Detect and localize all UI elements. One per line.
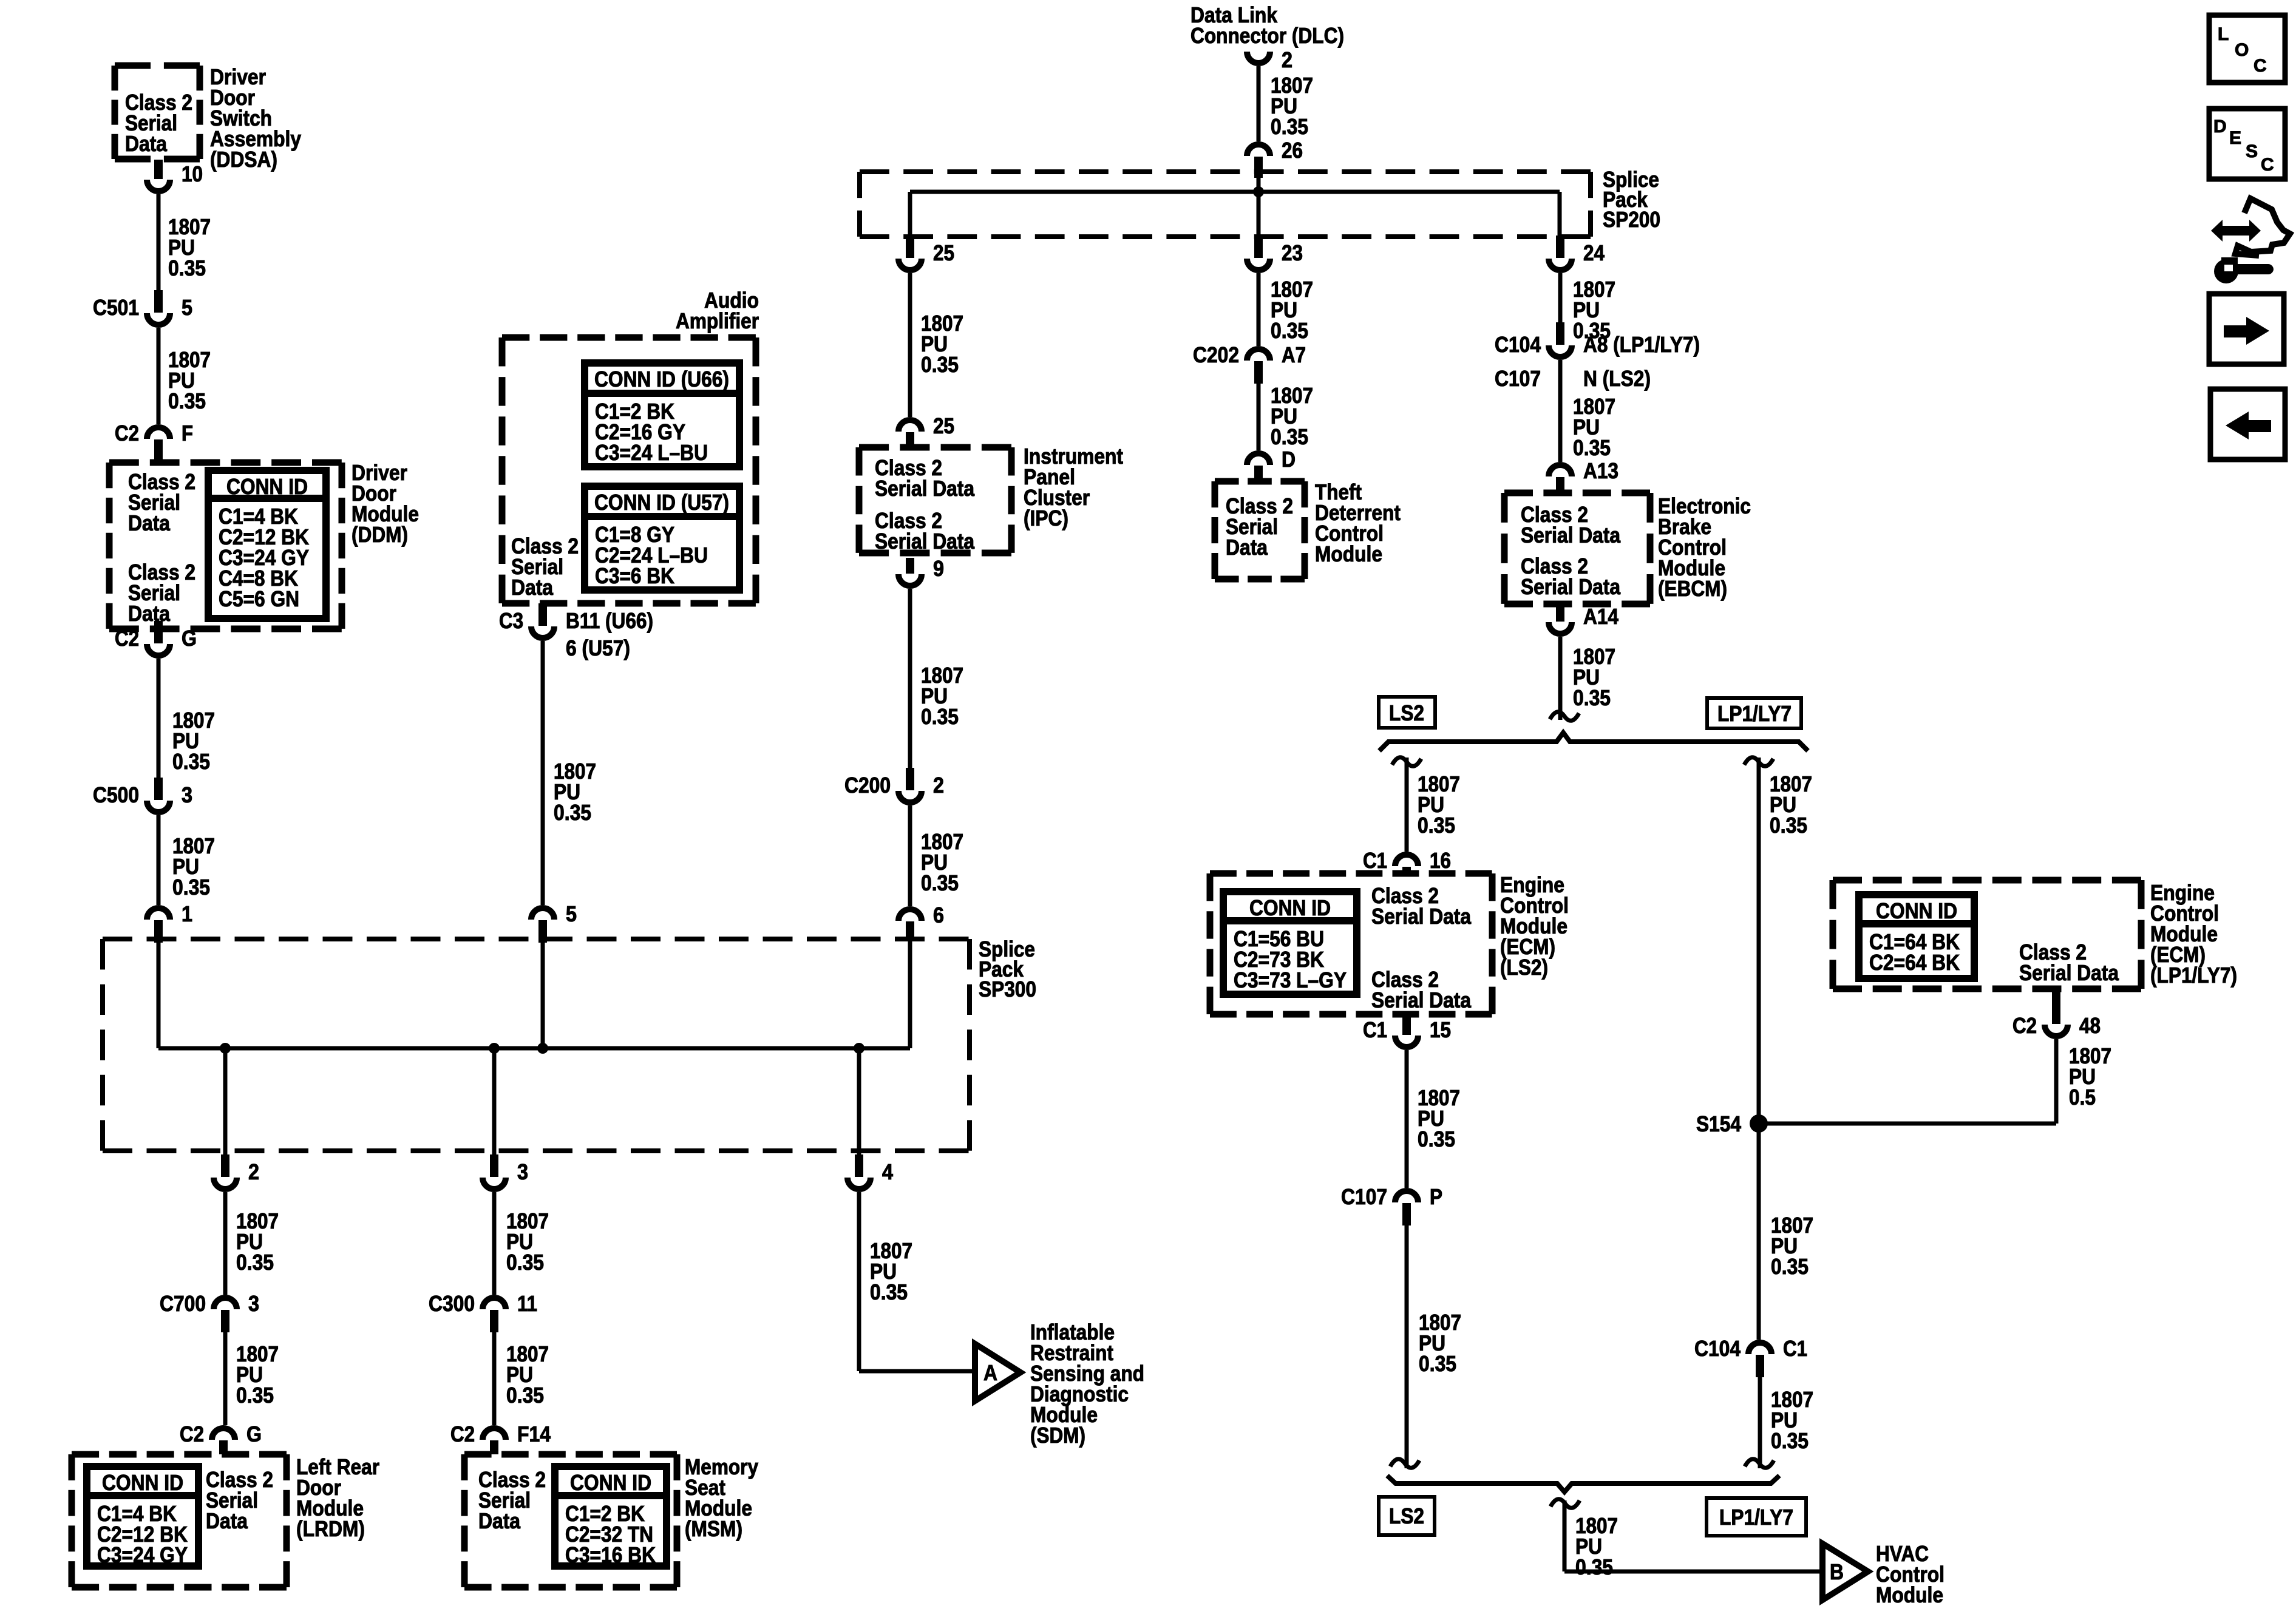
- wire 1807 PU from SP300 3 to C300: [492, 1192, 497, 1295]
- wire 1807 PU from IPC 9 to C200: [908, 589, 912, 768]
- svg-text:C2: C2: [2012, 1013, 2037, 1038]
- wire-break squiggle at LS2 wire end (bottom): [1390, 1459, 1419, 1468]
- svg-text:LP1/LY7: LP1/LY7: [1719, 1505, 1793, 1530]
- wire label 1807 PU 0.35 (C200-SP300): [921, 829, 963, 895]
- CONN ID (U66) table (Audio Amplifier): [585, 363, 739, 467]
- connector Theft pin D: [1247, 447, 1296, 481]
- svg-text:Data: Data: [206, 1508, 248, 1533]
- svg-text:C202: C202: [1193, 342, 1239, 367]
- svg-text:Data: Data: [128, 510, 171, 535]
- svg-text:Data: Data: [478, 1508, 521, 1533]
- connector C202 pin A7: [1193, 342, 1306, 384]
- svg-text:Serial Data: Serial Data: [1521, 574, 1621, 599]
- svg-text:0.35: 0.35: [921, 704, 959, 729]
- wire 1807 PU from C2 G to C500: [157, 659, 161, 778]
- svg-text:LP1/LY7: LP1/LY7: [1717, 701, 1792, 726]
- wire SP300 vertical pin1 leg: [157, 943, 161, 1048]
- svg-text:Module: Module: [1315, 541, 1382, 566]
- CONN ID table (ECM LS2): [1223, 892, 1357, 994]
- label EBCM name: [1658, 493, 1751, 601]
- svg-text:C107: C107: [1341, 1184, 1387, 1209]
- svg-text:C2: C2: [115, 421, 139, 446]
- svg-text:C3: C3: [499, 608, 523, 633]
- svg-text:0.35: 0.35: [1271, 114, 1308, 139]
- svg-text:N (LS2): N (LS2): [1583, 366, 1651, 391]
- net tag LS2 (top): [1379, 697, 1435, 728]
- svg-text:G: G: [182, 626, 197, 651]
- wire 1807 PU from SP200 25 to IPC 25: [908, 273, 912, 417]
- svg-text:0.35: 0.35: [1771, 1254, 1809, 1279]
- svg-text:C2: C2: [180, 1422, 204, 1446]
- svg-text:B11 (U66): B11 (U66): [566, 608, 653, 633]
- svg-text:CONN ID: CONN ID: [1876, 898, 1957, 923]
- wire 1807 PU from C501 to C2 F: [157, 328, 161, 424]
- connector ECM C1 pin 16: [1363, 848, 1451, 875]
- wire 1807 PU from C300 to C2 F14: [492, 1332, 497, 1425]
- connector SP300 pin 1: [147, 901, 192, 943]
- wire label 1807 PU 0.35 (C104-split bottom): [1771, 1387, 1813, 1453]
- svg-text:15: 15: [1430, 1017, 1451, 1042]
- CONN ID table (DDM): [208, 470, 326, 619]
- wire SP300 vertical pin6 leg: [908, 940, 912, 1048]
- svg-text:Connector (DLC): Connector (DLC): [1190, 23, 1344, 48]
- svg-text:0.35: 0.35: [554, 800, 591, 825]
- svg-text:B: B: [1830, 1559, 1844, 1584]
- module LRDM (Left Rear Door Module) dashed box: [72, 1454, 287, 1587]
- svg-text:Data: Data: [125, 131, 168, 156]
- svg-text:(LRDM): (LRDM): [296, 1516, 365, 1541]
- svg-text:CONN ID (U57): CONN ID (U57): [594, 490, 729, 515]
- svg-text:24: 24: [1583, 240, 1605, 265]
- branch brace LS2/LP1-LY7 (bottom): [1387, 1476, 1779, 1492]
- wire 1807 PU from SP300 2 to C700: [223, 1192, 228, 1295]
- connector SP300 pin 6: [898, 903, 944, 940]
- svg-text:C1: C1: [1363, 1017, 1387, 1042]
- net tag LP1/LY7 (top): [1707, 698, 1801, 728]
- connector DLC pin 2: [1247, 47, 1292, 72]
- connector pin 10 (DDSA C1): [147, 160, 203, 191]
- svg-text:0.35: 0.35: [870, 1280, 908, 1304]
- connector ECM C1 pin 15: [1363, 1015, 1451, 1047]
- svg-text:(DDSA): (DDSA): [210, 147, 277, 172]
- svg-text:0.35: 0.35: [1418, 813, 1455, 838]
- wire label 1807 PU 0.35 (SP300-C300): [506, 1209, 549, 1275]
- module Theft Deterrent Control Module dashed box: [1215, 481, 1305, 579]
- svg-text:L: L: [2218, 24, 2229, 44]
- svg-text:Data: Data: [1226, 535, 1268, 560]
- svg-text:1: 1: [182, 901, 192, 926]
- svg-text:C5=6 GN: C5=6 GN: [219, 586, 299, 611]
- connector SP200 pin 25: [898, 236, 954, 270]
- CONN ID table (MSM): [555, 1466, 667, 1567]
- connector C300 pin 11: [429, 1291, 537, 1332]
- wire-break squiggle at LP1/LY7 wire end (bottom): [1745, 1459, 1774, 1468]
- svg-text:0.35: 0.35: [921, 352, 959, 377]
- connector C500 pin 3: [93, 778, 192, 812]
- svg-text:0.35: 0.35: [1419, 1351, 1456, 1376]
- svg-text:Serial Data: Serial Data: [2019, 960, 2119, 985]
- svg-text:C300: C300: [429, 1291, 475, 1316]
- svg-text:(DDM): (DDM): [352, 522, 408, 547]
- wire label 1807 PU 0.35 (C700-LRDM): [236, 1341, 279, 1408]
- icon DESC box: [2209, 109, 2285, 179]
- svg-text:3: 3: [248, 1291, 259, 1316]
- svg-text:SP300: SP300: [979, 977, 1036, 1002]
- wire 1807 PU from C700 to C2 G: [223, 1332, 228, 1425]
- svg-text:0.35: 0.35: [1271, 318, 1308, 343]
- wire label 1807 PU 0.35 (C107-split): [1419, 1310, 1461, 1376]
- svg-text:0.35: 0.35: [1573, 685, 1611, 710]
- svg-text:LS2: LS2: [1389, 700, 1424, 725]
- svg-text:CONN ID (U66): CONN ID (U66): [594, 367, 729, 392]
- module ECM LS2 (Engine Control Module) dashed box: [1210, 873, 1492, 1014]
- CONN ID (U57) table (Audio Amplifier): [585, 486, 739, 590]
- wire label 1807 PU 0.35 (DLC-SP200): [1271, 73, 1313, 139]
- wire SP300 pin3 drop: [492, 1048, 497, 1155]
- wire label 1807 PU 0.35 (SP300-C700): [236, 1209, 279, 1275]
- svg-text:C501: C501: [93, 295, 139, 320]
- junction dot SP200 bus at pin 26: [1253, 186, 1264, 197]
- svg-text:O: O: [2235, 40, 2249, 60]
- wire label 1807 PU 0.35 (DDM-C500): [172, 708, 215, 774]
- label IPC name: [1024, 444, 1123, 531]
- svg-text:C500: C500: [93, 782, 139, 807]
- wire 1807 PU from C3 to SP300 pin 5: [541, 641, 545, 905]
- splice pack SP200 dashed box: [860, 172, 1591, 237]
- svg-text:C107: C107: [1495, 366, 1541, 391]
- wire label 1807 PU 0.35 (SP200-C202): [1271, 277, 1313, 343]
- wire 1807 PU from DDSA 10 to C501: [157, 194, 161, 290]
- svg-text:Data: Data: [511, 575, 554, 600]
- svg-text:6: 6: [933, 903, 944, 927]
- label Audio Amplifier name: [676, 288, 759, 333]
- wire label 1807 PU 0.35 (DDSA-C501): [168, 214, 211, 280]
- wire label 1807 PU 0.35 (C104-EBCM): [1573, 394, 1615, 460]
- svg-text:G: G: [246, 1422, 262, 1446]
- wire SP200 vertical bus to pin 25: [908, 192, 912, 237]
- svg-text:2: 2: [933, 773, 944, 798]
- svg-text:C: C: [2261, 155, 2274, 175]
- svg-text:0.35: 0.35: [172, 749, 210, 774]
- svg-text:9: 9: [933, 556, 944, 581]
- connector C104 pin C1: [1694, 1336, 1807, 1377]
- svg-text:0.35: 0.35: [506, 1250, 544, 1275]
- svg-text:C2=64 BK: C2=64 BK: [1869, 950, 1960, 975]
- wire SP200 vertical pin26-23: [1257, 178, 1261, 237]
- connector SP300 pin 2: [214, 1154, 259, 1189]
- svg-text:C3=24 GY: C3=24 GY: [97, 1542, 188, 1567]
- svg-text:(SDM): (SDM): [1030, 1423, 1085, 1448]
- module DDSA (Driver Door Switch Assembly) dashed box: [115, 66, 200, 159]
- wire label 1807 PU 0.35 (C300-MSM): [506, 1341, 549, 1408]
- connector SP300 pin 4: [847, 1154, 893, 1189]
- svg-text:A7: A7: [1282, 342, 1306, 367]
- junction dot SP300 bus pin2 branch: [220, 1043, 231, 1054]
- branch brace LS2/LP1-LY7 (top): [1379, 733, 1808, 751]
- svg-text:(IPC): (IPC): [1024, 506, 1068, 531]
- label ECM LS2 name: [1500, 872, 1569, 980]
- wire 1807 PU from A14 to LS2/LP1 split: [1558, 637, 1563, 720]
- svg-text:A: A: [983, 1360, 997, 1385]
- wire label 1807 PU 0.35 (SP300-SDM): [870, 1238, 912, 1304]
- wire label 1807 PU 0.35 (audio-SP300): [554, 759, 596, 825]
- connector C3 pin B11(U66)/6(U57): [499, 603, 653, 660]
- wire S154 to ECM LP1/LY7 C2 48: [1759, 1039, 2056, 1124]
- connector C107 pin P: [1341, 1184, 1442, 1225]
- svg-text:Amplifier: Amplifier: [676, 308, 759, 333]
- wire 1807 PU from split to S154: [1757, 758, 1761, 1124]
- label MSM name: [685, 1454, 758, 1541]
- connector SP200 pin 23: [1247, 236, 1303, 270]
- wire label 1807 PU 0.35 (A14-split): [1573, 644, 1615, 710]
- label LRDM name: [296, 1454, 379, 1541]
- wire 1807 PU from SP200 24 to C104 A8: [1558, 273, 1563, 323]
- wire-break squiggle below merge: [1550, 1499, 1580, 1508]
- wire 1807 PU from SP200 23 to C202: [1257, 273, 1261, 346]
- icon LOC box: [2209, 15, 2285, 83]
- svg-text:C3=16 BK: C3=16 BK: [565, 1542, 656, 1567]
- connector SP300 pin 5: [531, 901, 577, 943]
- wire S154 down to C104 C1: [1757, 1124, 1761, 1340]
- svg-text:D: D: [1282, 447, 1296, 472]
- svg-text:3: 3: [517, 1159, 528, 1184]
- wire 1807 PU from C107 P to bottom split: [1405, 1225, 1409, 1468]
- svg-text:0.35: 0.35: [1573, 435, 1611, 460]
- svg-text:A13: A13: [1583, 458, 1618, 483]
- wire label 1807 PU 0.35 (C501-DDM): [168, 347, 211, 413]
- svg-text:3: 3: [182, 782, 192, 807]
- svg-text:0.35: 0.35: [921, 870, 959, 895]
- junction dot SP300 bus pin3 branch: [489, 1043, 500, 1054]
- svg-text:0.35: 0.35: [1771, 1428, 1809, 1453]
- svg-text:0.5: 0.5: [2069, 1085, 2096, 1110]
- svg-text:2: 2: [248, 1159, 259, 1184]
- label HVAC Control Module: [1876, 1541, 1944, 1607]
- svg-text:2: 2: [1282, 47, 1292, 72]
- wire label 1807 PU 0.35 (C500-SP300): [172, 833, 215, 900]
- wire label 1807 PU 0.35 (SP200-C104): [1573, 277, 1615, 343]
- module Audio Amplifier dashed box: [502, 337, 756, 603]
- wire label 1807 PU 0.35 (IPC-C200): [921, 663, 963, 729]
- svg-text:E: E: [2229, 128, 2241, 148]
- junction dot SP300 bus pin4 branch: [854, 1043, 864, 1054]
- svg-text:26: 26: [1282, 138, 1303, 163]
- CONN ID table (ECM LP1/LY7): [1859, 895, 1974, 978]
- label ECM LP1/LY7 name: [2150, 880, 2237, 988]
- connector C501 pin 5: [93, 290, 192, 325]
- svg-text:48: 48: [2079, 1013, 2101, 1038]
- wire 1807 PU from C500 to SP300 pin 1: [157, 815, 161, 905]
- net tag LP1/LY7 (bottom): [1707, 1498, 1806, 1536]
- wire 1807 PU from C202 to Theft D: [1257, 381, 1261, 450]
- svg-text:0.35: 0.35: [1271, 424, 1308, 449]
- svg-text:Serial Data: Serial Data: [875, 476, 975, 501]
- svg-text:C3=24 L–BU: C3=24 L–BU: [595, 440, 708, 465]
- connector SP300 pin 3: [483, 1154, 528, 1189]
- connector C200 pin 2: [844, 768, 944, 802]
- wire label 1807 PU 0.35 (split-ECM LS2): [1418, 771, 1460, 838]
- svg-text:F: F: [182, 421, 193, 446]
- svg-text:0.35: 0.35: [1770, 813, 1807, 838]
- label S154: [1696, 1111, 1741, 1136]
- svg-text:0.35: 0.35: [236, 1250, 274, 1275]
- connector SP200 pin 26: [1247, 138, 1303, 178]
- svg-text:0.35: 0.35: [236, 1383, 274, 1408]
- svg-text:Module: Module: [1876, 1582, 1943, 1607]
- module IPC (Instrument Panel Cluster) dashed box: [859, 447, 1011, 554]
- svg-text:CONN ID: CONN ID: [1249, 895, 1331, 920]
- net tag LS2 (bottom): [1379, 1497, 1435, 1535]
- svg-text:C: C: [2254, 56, 2267, 76]
- svg-text:Serial Data: Serial Data: [875, 529, 975, 554]
- svg-text:Serial Data: Serial Data: [1371, 904, 1472, 929]
- svg-text:SP200: SP200: [1603, 207, 1660, 232]
- svg-text:C1: C1: [1783, 1336, 1807, 1361]
- svg-text:25: 25: [933, 413, 954, 438]
- svg-text:C104: C104: [1495, 332, 1541, 357]
- junction dot SP300 bus pin5 leg: [537, 1043, 548, 1054]
- svg-text:16: 16: [1430, 848, 1451, 873]
- svg-text:6 (U57): 6 (U57): [566, 636, 630, 660]
- wire SP300 internal bus: [158, 1046, 910, 1051]
- wire SP300 pin2 drop: [223, 1048, 228, 1155]
- svg-text:(EBCM): (EBCM): [1658, 576, 1727, 601]
- svg-text:CONN ID: CONN ID: [570, 1470, 651, 1495]
- svg-text:C2: C2: [115, 626, 139, 651]
- svg-text:A14: A14: [1583, 604, 1618, 629]
- off-page arrow A to SDM: [975, 1344, 1021, 1401]
- label DDSA name: [210, 64, 301, 172]
- splice pack SP300 dashed box: [103, 939, 970, 1151]
- module MSM (Memory Seat Module) dashed box: [464, 1454, 677, 1587]
- connector C2 pin G (DDM): [115, 621, 197, 656]
- connector EBCM pin A14: [1549, 604, 1618, 634]
- svg-text:0.35: 0.35: [172, 875, 210, 900]
- icon vehicle diagnostic pictogram: [2211, 198, 2290, 283]
- wire merge to HVAC arrow: [1564, 1500, 1822, 1571]
- svg-text:0.35: 0.35: [1418, 1127, 1455, 1151]
- label Theft Deterrent name: [1315, 480, 1401, 566]
- label Data Link Connector (DLC): [1190, 2, 1344, 48]
- wire 1807 PU from SP300 4 to SDM corner: [859, 1192, 975, 1371]
- svg-text:C700: C700: [160, 1291, 206, 1316]
- svg-text:C200: C200: [844, 773, 891, 798]
- wire 1807 PU from DLC 2 to 26: [1257, 66, 1261, 141]
- wire label 1807 PU 0.35 (C202-Theft): [1271, 383, 1313, 449]
- label SDM name: [1030, 1320, 1144, 1448]
- module ECM LP1/LY7 (Engine Control Module) dashed box: [1833, 880, 2141, 989]
- wire label 1807 PU 0.35 (merge-HVAC): [1575, 1513, 1618, 1579]
- svg-text:C3=73 L–GY: C3=73 L–GY: [1234, 968, 1347, 992]
- svg-text:0.35: 0.35: [168, 388, 206, 413]
- wire SP300 vertical pin5 leg: [541, 943, 545, 1048]
- wire label 1807 PU 0.35 (S154-C104): [1771, 1213, 1813, 1279]
- wire label 1807 PU 0.35 (SP200-IPC): [921, 311, 963, 377]
- wire label 1807 PU 0.35 (ECM-C107): [1418, 1085, 1460, 1151]
- svg-text:5: 5: [566, 901, 577, 926]
- connector EBCM pin A13: [1549, 458, 1618, 493]
- label SP200 name: [1603, 167, 1660, 232]
- wire 1807 PU from split to ECM C1 16: [1405, 758, 1409, 852]
- svg-text:C3=6 BK: C3=6 BK: [595, 563, 674, 588]
- svg-text:F14: F14: [517, 1422, 551, 1446]
- icon forward arrow box: [2209, 294, 2284, 364]
- svg-text:CONN ID: CONN ID: [226, 474, 308, 499]
- svg-text:C104: C104: [1694, 1336, 1741, 1361]
- icon back arrow box: [2210, 389, 2285, 459]
- connector SP200 pin 24: [1549, 236, 1605, 270]
- wire SP200 internal bus: [910, 190, 1560, 194]
- wire SP300 pin4 drop: [857, 1048, 861, 1155]
- connector C104/C107 pin A8/N: [1495, 322, 1700, 391]
- connector IPC pin 9: [898, 556, 944, 586]
- svg-text:S: S: [2246, 141, 2258, 161]
- wire 1807 PU from C200 to SP300 pin 6: [908, 805, 912, 906]
- connector IPC pin 25: [898, 413, 954, 447]
- wire label 1807 PU 0.5 (S154-C2 48): [2069, 1043, 2111, 1110]
- connector C700 pin 3: [160, 1291, 259, 1332]
- svg-text:(LP1/LY7): (LP1/LY7): [2150, 963, 2237, 988]
- connector C2 pin G (LRDM): [180, 1422, 262, 1454]
- svg-text:23: 23: [1282, 240, 1303, 265]
- svg-text:(LS2): (LS2): [1500, 955, 1548, 980]
- CONN ID table (LRDM): [87, 1466, 199, 1567]
- splice S154 junction dot: [1750, 1114, 1768, 1133]
- label SP300 name: [979, 937, 1036, 1002]
- svg-text:LS2: LS2: [1389, 1503, 1424, 1528]
- wire 1807 PU from C1 15 to C107 P: [1405, 1050, 1409, 1188]
- svg-text:0.35: 0.35: [506, 1383, 544, 1408]
- svg-text:A8 (LP1/LY7): A8 (LP1/LY7): [1583, 332, 1700, 357]
- svg-text:Serial Data: Serial Data: [1521, 523, 1621, 547]
- wire SP200 vertical bus to pin 24: [1558, 192, 1562, 237]
- connector C2 pin F (DDM): [115, 421, 193, 462]
- svg-text:10: 10: [182, 161, 203, 186]
- wire label 1807 PU 0.35 (split-S154): [1770, 771, 1812, 838]
- svg-text:P: P: [1430, 1184, 1442, 1209]
- svg-text:Data: Data: [128, 601, 171, 626]
- svg-text:0.35: 0.35: [168, 256, 206, 280]
- wire 1807 PU from C104 to EBCM A13: [1558, 360, 1563, 462]
- module DDM (Driver Door Module) dashed box: [109, 463, 342, 629]
- wire-break squiggle at LP1/LY7 branch start: [1744, 758, 1773, 767]
- svg-text:D: D: [2213, 117, 2227, 137]
- connector ECM C2 pin 48: [2012, 989, 2101, 1038]
- label DDM name: [352, 460, 419, 547]
- svg-text:4: 4: [882, 1159, 893, 1184]
- svg-text:25: 25: [933, 240, 954, 265]
- svg-text:(MSM): (MSM): [685, 1516, 742, 1541]
- wire-break squiggle at A14 wire end: [1550, 712, 1579, 721]
- wire 1807 PU from C104 C1 to bottom split: [1758, 1377, 1762, 1468]
- svg-text:C2: C2: [450, 1422, 475, 1446]
- svg-text:S154: S154: [1696, 1111, 1741, 1136]
- connector C2 pin F14 (MSM): [450, 1422, 551, 1454]
- svg-text:C1: C1: [1363, 848, 1387, 873]
- svg-text:5: 5: [182, 295, 192, 320]
- svg-text:0.35: 0.35: [1575, 1554, 1613, 1579]
- svg-text:Serial Data: Serial Data: [1371, 988, 1472, 1012]
- wire-break squiggle at LS2 branch start: [1392, 758, 1421, 767]
- svg-text:11: 11: [517, 1291, 537, 1316]
- svg-text:CONN ID: CONN ID: [102, 1470, 183, 1495]
- module EBCM (Electronic Brake Control Module) dashed box: [1504, 493, 1650, 604]
- off-page arrow B to HVAC: [1822, 1544, 1868, 1600]
